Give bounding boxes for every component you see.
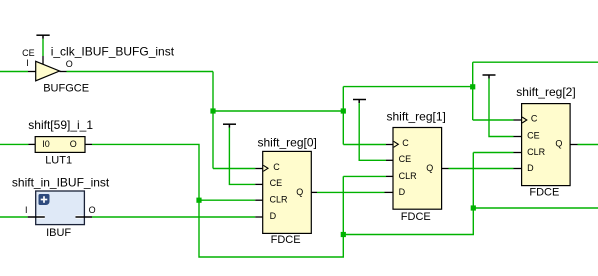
wire clk net vertical x213 bbox=[212, 72, 214, 169]
wire Q0 output stub bbox=[311, 191, 317, 193]
pin chevron C1 bbox=[394, 141, 399, 147]
node junction clr2 bbox=[471, 205, 476, 210]
svg-text:CE: CE bbox=[22, 48, 35, 58]
svg-text:LUT1: LUT1 bbox=[45, 154, 72, 166]
buffer BUFGCE i_clk_IBUF_BUFG_inst bbox=[36, 61, 60, 81]
wire Q1 to D2 bbox=[449, 168, 514, 170]
svg-text:I: I bbox=[26, 58, 29, 68]
svg-text:D: D bbox=[527, 163, 534, 173]
svg-text:D: D bbox=[270, 211, 277, 221]
svg-text:I: I bbox=[25, 205, 28, 215]
wire clk into FDCE1 C bbox=[343, 144, 386, 146]
svg-text:FDCE: FDCE bbox=[401, 211, 431, 223]
wire IBUF I pin line bbox=[37, 215, 45, 218]
wire clr net offsheet right y208 bbox=[473, 207, 598, 209]
wire BUFGCE output pin stub bbox=[60, 71, 67, 73]
svg-text:i_clk_IBUF_BUFG_inst: i_clk_IBUF_BUFG_inst bbox=[51, 45, 175, 59]
svg-text:FDCE: FDCE bbox=[529, 186, 559, 198]
svg-text:shift_reg[2]: shift_reg[2] bbox=[516, 85, 575, 99]
wire LUT1 output stub bbox=[85, 143, 92, 145]
svg-text:shift_in_IBUF_inst: shift_in_IBUF_inst bbox=[12, 175, 110, 189]
svg-text:BUFGCE: BUFGCE bbox=[43, 82, 89, 94]
svg-text:CLR: CLR bbox=[270, 195, 289, 205]
wire CE2 net bbox=[489, 79, 514, 137]
wire clk into FDCE0 C bbox=[213, 168, 255, 170]
wire IBUF O pin line bbox=[76, 215, 84, 218]
svg-text:Q: Q bbox=[555, 139, 562, 149]
svg-text:shift_reg[0]: shift_reg[0] bbox=[258, 136, 317, 150]
wire clr into FDCE2 CLR bbox=[473, 152, 513, 154]
node CE stub T-bar of BUFGCE bbox=[36, 35, 49, 39]
svg-text:FDCE: FDCE bbox=[271, 234, 301, 246]
svg-text:shift_reg[1]: shift_reg[1] bbox=[387, 110, 446, 124]
svg-text:C: C bbox=[531, 113, 538, 123]
wire Q2 offsheet bbox=[578, 144, 598, 146]
node junction J2 bbox=[341, 108, 346, 113]
wire CE1 net bbox=[359, 103, 386, 160]
wire clk net horizontal top bbox=[67, 71, 214, 73]
node junction clr1 bbox=[341, 232, 346, 237]
wire Q2 output stub bbox=[570, 144, 577, 146]
wire clr net from LUT1 bbox=[92, 144, 343, 257]
flipflop FDCE shift_reg[2] bbox=[522, 104, 571, 186]
node junction clr0 bbox=[196, 198, 201, 203]
wire clr into FDCE1 CLR bbox=[343, 175, 386, 177]
svg-text:O: O bbox=[89, 205, 96, 215]
wire BUFGCE input pin stub bbox=[28, 71, 36, 73]
node CE0 T-bar stub bbox=[223, 124, 236, 128]
wire clr bottom branch right bbox=[343, 153, 473, 235]
wire LUT1 input bbox=[0, 143, 29, 145]
node CE2 T-bar stub bbox=[483, 75, 496, 79]
wire clk net horizontal y86.6 bbox=[343, 86, 472, 88]
wire BUFGCE CE vertical bbox=[42, 39, 44, 56]
svg-text:D: D bbox=[399, 187, 406, 197]
svg-text:Q: Q bbox=[426, 163, 433, 173]
svg-text:IBUF: IBUF bbox=[46, 227, 71, 239]
wire i_clk input to BUFGCE bbox=[0, 71, 28, 73]
svg-text:O: O bbox=[70, 139, 77, 149]
wire clk net vertical x343 bbox=[342, 87, 344, 145]
pin chevron C0 bbox=[263, 165, 268, 171]
svg-text:C: C bbox=[273, 162, 280, 172]
node junction J3 bbox=[470, 84, 475, 89]
svg-text:O: O bbox=[66, 59, 73, 69]
svg-text:CLR: CLR bbox=[399, 171, 418, 181]
wire clr into FDCE0 CLR bbox=[199, 199, 255, 201]
svg-text:I0: I0 bbox=[42, 139, 50, 149]
node CE1 T-bar stub bbox=[353, 100, 366, 104]
svg-text:C: C bbox=[402, 138, 409, 148]
svg-text:CE: CE bbox=[399, 154, 412, 164]
svg-text:shift[59]_i_1: shift[59]_i_1 bbox=[28, 118, 93, 132]
svg-text:CLR: CLR bbox=[527, 147, 546, 157]
wire clk net horizontal y111 bbox=[213, 110, 343, 112]
lut LUT1 shift[59]_i_1 bbox=[35, 137, 85, 153]
wire BUFGCE CE pin stub bbox=[42, 56, 44, 65]
wire clk into FDCE2 C bbox=[473, 119, 514, 121]
wire clk net horizontal y62 offsheet bbox=[473, 61, 598, 63]
wire Q1 output stub bbox=[442, 168, 449, 170]
ibuf IBUF shift_in_IBUF_inst bbox=[36, 191, 85, 225]
wire Q0 to D1 bbox=[317, 191, 385, 193]
flipflop FDCE shift_reg[1] bbox=[393, 128, 442, 210]
wire shift_in input bbox=[0, 216, 28, 218]
svg-text:Q: Q bbox=[296, 187, 303, 197]
svg-text:CE: CE bbox=[527, 130, 540, 140]
pin chevron C2 bbox=[522, 117, 527, 123]
icon plus badge bbox=[39, 194, 50, 205]
wire shift_in net to FDCE0 D bbox=[92, 216, 255, 218]
svg-text:CE: CE bbox=[270, 178, 283, 188]
node junction J1 bbox=[210, 108, 215, 113]
flipflop FDCE shift_reg[0] bbox=[263, 151, 312, 233]
wire clk net vertical x472.7 bbox=[472, 62, 474, 120]
wire CE0 net bbox=[229, 128, 255, 185]
